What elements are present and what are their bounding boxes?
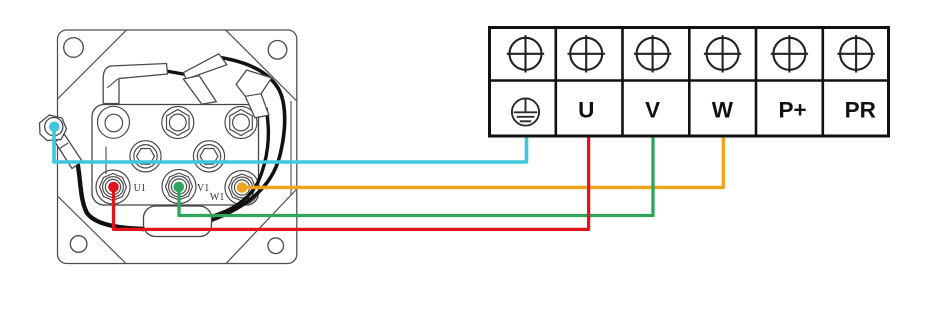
svg-text:W1: W1 [210,192,224,203]
cable lug right [236,70,272,118]
black cable left sweep from ground lug [76,156,144,229]
screw P+ [771,35,808,72]
svg-text:P+: P+ [779,98,807,123]
screw PR [837,35,874,72]
corner screw hole bottom-right [268,238,284,254]
cable gland [144,206,212,237]
stud top-middle [162,107,194,139]
corner chamfer bottom-right [226,189,297,264]
wire U red [114,135,589,229]
nut middle-left [130,141,161,172]
svg-text:U1: U1 [134,183,146,194]
corner screw hole top-right [268,41,287,60]
PE wire dot [49,122,59,132]
drive terminal strip outline [490,28,889,137]
terminal V1 rings [162,170,196,204]
strip divider 4 [755,26,758,136]
terminal U1 rings [96,170,130,204]
V wire dot [174,182,185,193]
svg-text:U: U [578,98,594,123]
screw PE [507,35,544,72]
stud top-left [98,106,130,138]
U wire dot [108,182,119,193]
W wire dot [237,182,248,193]
stud top-right [225,107,257,139]
strip divider 2 [621,26,624,136]
corner chamfer top-left [58,31,127,100]
svg-text:W: W [712,98,734,123]
black cable strand inner right [211,108,268,217]
svg-text:V: V [645,98,660,123]
screw W [704,35,741,72]
corner screw hole top-left [64,38,84,58]
strip middle line [488,79,889,82]
corner screw hole bottom-left [70,236,87,253]
cable lug middle [183,54,226,104]
block molding line [105,147,107,175]
screw U [568,35,605,72]
nut middle-right [193,141,224,172]
wire V green [179,135,653,216]
black cable strand outer right [211,58,285,221]
strip divider 3 [688,26,691,136]
earth symbol [512,98,539,125]
corner chamfer bottom-left [58,196,127,264]
wire PE cyan [54,127,527,162]
black cable link between lugs [166,71,186,75]
inner seam right [290,101,292,196]
wire W orange [242,135,723,188]
strip divider 1 [554,26,557,136]
corner chamfer top-right [226,30,297,101]
ground lug [40,115,83,169]
internal terminal block [92,105,259,206]
terminal W1 rings [225,171,259,205]
strip divider 5 [821,26,824,136]
screw V [634,35,671,72]
svg-text:V1: V1 [197,183,209,194]
svg-text:PR: PR [845,98,876,123]
motor junction box outline [58,30,297,264]
cable lug left [103,64,167,104]
